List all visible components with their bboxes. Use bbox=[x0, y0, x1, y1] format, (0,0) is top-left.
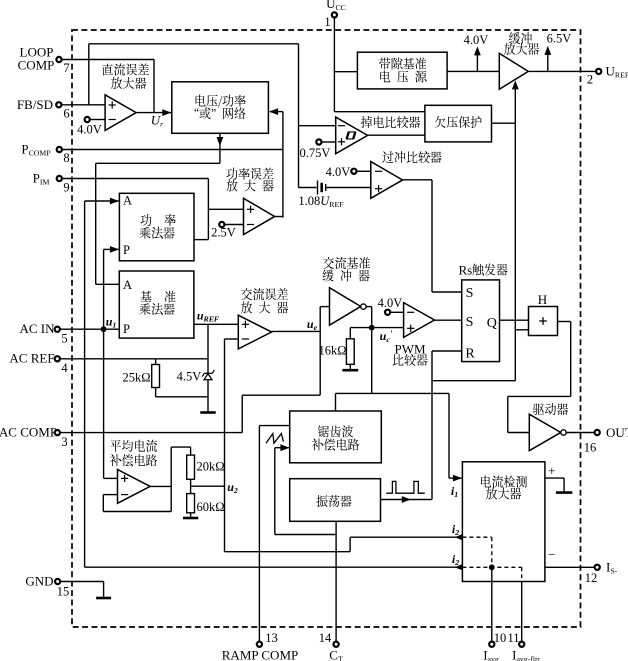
svg-text:12: 12 bbox=[585, 571, 598, 585]
wire uref to zener bbox=[207, 324, 209, 412]
wire u1 to P input of power multiplier bbox=[104, 246, 119, 478]
pin 3 AC COMP wire bbox=[60, 432, 242, 434]
svg-text:Iavg-fltr: Iavg-fltr bbox=[512, 648, 540, 661]
pin 7 terminal bbox=[56, 57, 61, 62]
wire to pin 11 bbox=[521, 582, 523, 642]
wire UVP output bbox=[492, 123, 516, 330]
undervoltage protection box 欠压保护 bbox=[425, 105, 492, 142]
minus terminal of current amp bbox=[548, 547, 555, 562]
svg-text:20kΩ: 20kΩ bbox=[196, 460, 224, 474]
pin number 2 bbox=[587, 73, 593, 87]
wire overshoot output to S input bbox=[403, 180, 462, 292]
wire RAMP COMP to sawtooth box bbox=[259, 426, 289, 645]
wire i2 to power multiplier (second) bbox=[85, 564, 463, 570]
pin 10 terminal bbox=[489, 642, 494, 647]
current detection amplifier box 电流检测放大器 bbox=[462, 462, 545, 582]
power-down comparator 掉电比较器 bbox=[336, 117, 368, 154]
oscillator pulse symbol bbox=[386, 481, 425, 493]
buffer amplifier 缓冲放大器 bbox=[499, 32, 539, 89]
pin 6 terminal bbox=[56, 102, 61, 107]
16k resistor bbox=[346, 328, 371, 370]
svg-text:15: 15 bbox=[57, 585, 70, 599]
svg-text:S: S bbox=[466, 315, 474, 330]
ground (zener) bbox=[200, 411, 215, 414]
label 直流误差放大器 bbox=[102, 63, 149, 89]
wire UVP to buffer bottom (arrow up) bbox=[512, 80, 519, 123]
pin number 14 bbox=[319, 631, 332, 645]
60k resistor bbox=[187, 494, 195, 518]
label AC COMP bbox=[0, 425, 57, 440]
pin number 13 bbox=[265, 631, 278, 645]
svg-text:60kΩ: 60kΩ bbox=[196, 500, 224, 514]
overshoot comparator 过冲比较器 bbox=[371, 162, 403, 199]
svg-text:P: P bbox=[123, 322, 130, 336]
pin 9 Pim wire bbox=[62, 179, 208, 240]
svg-text:6.5V: 6.5V bbox=[547, 32, 572, 46]
svg-text:16: 16 bbox=[584, 441, 597, 455]
label 掉电比较器 bbox=[361, 116, 420, 128]
svg-text:4.0V: 4.0V bbox=[378, 296, 403, 310]
svg-text:AC REF: AC REF bbox=[9, 351, 54, 366]
svg-text:10: 10 bbox=[494, 631, 507, 645]
pin number 5 bbox=[61, 332, 67, 346]
pin 14 terminal bbox=[334, 642, 339, 647]
ground (60k) bbox=[183, 517, 198, 520]
label i1 bbox=[451, 484, 458, 499]
pin 1 Ucc terminal bbox=[332, 12, 337, 17]
label 25k bbox=[122, 371, 150, 385]
label i2 (first) bbox=[452, 522, 459, 537]
DC error amplifier 直流误差放大器 bbox=[105, 95, 136, 131]
label Pcomp bbox=[21, 142, 51, 158]
label uc' bbox=[380, 329, 393, 344]
svg-text:4.0V: 4.0V bbox=[326, 165, 351, 179]
svg-text:16kΩ: 16kΩ bbox=[318, 344, 346, 358]
svg-text:u1: u1 bbox=[106, 315, 117, 330]
svg-text:uREF: uREF bbox=[197, 309, 220, 324]
pin 11 terminal bbox=[519, 642, 524, 647]
wire amp output bbox=[150, 485, 171, 487]
svg-text:S: S bbox=[466, 286, 474, 301]
label FB/SD bbox=[17, 97, 53, 112]
wire uc to PWM plus bbox=[372, 327, 404, 329]
svg-text:2.5V: 2.5V bbox=[211, 226, 236, 240]
pin number 3 bbox=[61, 435, 67, 449]
wire feedback minus loop bbox=[103, 447, 171, 511]
label 4.0V (top) bbox=[464, 33, 489, 47]
svg-text:11: 11 bbox=[507, 631, 519, 645]
svg-text:1.08UREF: 1.08UREF bbox=[298, 194, 344, 209]
reference multiplier box 基准乘法器 bbox=[119, 271, 194, 338]
pin 2 Uref terminal bbox=[596, 69, 601, 74]
svg-text:4.0V: 4.0V bbox=[464, 33, 489, 47]
ground (16k) bbox=[342, 369, 358, 372]
svg-text:GND: GND bbox=[25, 574, 53, 589]
wire bandgap to buffer bbox=[447, 70, 499, 72]
label PWM比较器 bbox=[393, 342, 428, 366]
label 20k bbox=[196, 460, 224, 474]
pin 9 terminal bbox=[57, 176, 62, 181]
AC reference buffer 交流基准缓冲器 bbox=[330, 288, 367, 326]
H summing box bbox=[529, 307, 558, 336]
pin 1 Ucc wire bbox=[334, 18, 425, 112]
svg-text:R: R bbox=[465, 347, 475, 362]
label 过冲比较器 bbox=[382, 151, 441, 163]
wire 0.75V to plus input bbox=[322, 141, 336, 143]
pin 4 AC REF wire bbox=[60, 358, 208, 360]
label RAMP COMP bbox=[222, 648, 298, 661]
4.0V terminal (overshoot) bbox=[351, 169, 356, 174]
svg-text:9: 9 bbox=[63, 181, 69, 195]
label Pim bbox=[33, 171, 50, 187]
label 4.5V bbox=[177, 370, 202, 384]
oscillator box 振荡器 bbox=[290, 479, 381, 522]
pin 4 terminal bbox=[55, 356, 60, 361]
wire to pin 10 bbox=[491, 567, 493, 641]
label 交流误差放大器 bbox=[241, 288, 288, 313]
label 60k bbox=[196, 500, 224, 514]
wire H output to driver bbox=[508, 322, 571, 433]
label 平均电流补偿电路 bbox=[110, 440, 157, 467]
label LOOP COMP bbox=[18, 45, 55, 73]
svg-text:UREF: UREF bbox=[606, 64, 628, 80]
pin number 15 bbox=[57, 585, 70, 599]
pin 7 LOOP COMP wire bbox=[62, 60, 154, 113]
svg-text:14: 14 bbox=[319, 631, 332, 645]
4.0V terminal (PWM) bbox=[385, 310, 390, 315]
20k resistor bbox=[171, 447, 194, 494]
AC error amplifier 交流误差放大器 bbox=[238, 315, 271, 349]
bandgap reference box 带隙基准电压源 bbox=[357, 52, 447, 89]
svg-text:4: 4 bbox=[61, 361, 68, 375]
svg-text:PIM: PIM bbox=[33, 171, 50, 187]
svg-text:IS-: IS- bbox=[606, 560, 618, 576]
wire power-amp feedback to OR network bbox=[269, 108, 283, 217]
label AC IN bbox=[19, 321, 55, 336]
svg-text:A: A bbox=[123, 278, 132, 292]
wire uc'/i1 run bbox=[336, 393, 462, 481]
svg-text:FB/SD: FB/SD bbox=[17, 97, 53, 112]
PWM comparator PWM比较器 bbox=[404, 303, 435, 338]
pin 8 Pcomp wire bbox=[62, 149, 283, 151]
pin number 12 bbox=[585, 571, 598, 585]
svg-text:UCC: UCC bbox=[326, 0, 346, 12]
battery 1.08Uref bbox=[299, 181, 371, 195]
svg-text:AC IN: AC IN bbox=[19, 321, 55, 336]
svg-text:−: − bbox=[548, 547, 555, 562]
pin number 7 bbox=[63, 61, 69, 75]
IC package boundary (dashed) bbox=[72, 30, 581, 627]
label 4.0V (PWM) bbox=[378, 296, 403, 310]
pin 13 terminal bbox=[257, 642, 262, 647]
label Iavg bbox=[483, 648, 499, 661]
svg-text:Rs: Rs bbox=[459, 263, 473, 278]
wire Ct to pin 14 bbox=[335, 521, 337, 644]
wire PWM output to S bbox=[435, 319, 462, 321]
svg-text:i2: i2 bbox=[452, 552, 459, 567]
wire DC amp output to OR network bbox=[136, 109, 171, 116]
sawtooth compensation box 锯齿波补偿电路 bbox=[290, 393, 382, 462]
4.0V terminal (DC error amp) bbox=[85, 117, 90, 122]
wire multiplier output to plus input bbox=[194, 209, 244, 239]
label i2 (second) bbox=[452, 552, 459, 567]
wire Ucc to bandgap bbox=[334, 71, 357, 73]
pin 5 terminal bbox=[55, 327, 60, 332]
2.5V terminal bbox=[219, 222, 224, 227]
svg-text:4.5V: 4.5V bbox=[177, 370, 202, 384]
power multiplier box 功率乘法器 bbox=[119, 193, 194, 260]
svg-text:RAMP COMP: RAMP COMP bbox=[222, 648, 298, 661]
label Ur bbox=[151, 113, 164, 129]
svg-text:PCOMP: PCOMP bbox=[21, 142, 51, 158]
wire buffer output to uc node bbox=[366, 307, 372, 394]
svg-text:25kΩ: 25kΩ bbox=[122, 371, 150, 385]
label Ucc bbox=[326, 0, 346, 12]
wire 4.0V to PWM minus bbox=[391, 311, 404, 313]
label Is- bbox=[606, 560, 618, 576]
label Uref bbox=[606, 64, 628, 80]
svg-text:AC COMP: AC COMP bbox=[0, 425, 57, 440]
25k resistor bbox=[152, 359, 208, 397]
wire ue output bbox=[272, 330, 321, 332]
node uc' bbox=[369, 325, 375, 331]
wire oscillator output bbox=[381, 496, 433, 503]
pin 6 FB/SD wire bbox=[62, 104, 105, 106]
pin 16 terminal bbox=[595, 430, 600, 435]
wire FB/SD to comparators (top run) bbox=[89, 44, 299, 188]
svg-text:A: A bbox=[123, 194, 132, 208]
power error amplifier 功率误差放大器 bbox=[244, 198, 275, 234]
pin numbers 10 11 bbox=[494, 631, 520, 645]
wire Q output to H bbox=[500, 319, 529, 321]
label GND bbox=[25, 574, 53, 589]
node i2 junction bbox=[489, 564, 495, 570]
voltage/power OR network box 电压/功率或网络 bbox=[172, 82, 269, 134]
wire Ct ramp to sawtooth box (arrow) bbox=[275, 444, 336, 534]
label u1 bbox=[106, 315, 117, 330]
label 1.08Uref bbox=[298, 194, 344, 209]
svg-text:PWM: PWM bbox=[394, 342, 426, 357]
label 16k bbox=[318, 344, 346, 358]
zener diode 4.5V bbox=[202, 370, 214, 380]
pin 5 AC IN wire bbox=[60, 328, 119, 330]
wire OR output to A input of reference multiplier bbox=[96, 283, 120, 285]
label Iavg-fltr bbox=[512, 648, 540, 661]
wire to minus of power-down comparator bbox=[299, 125, 336, 127]
svg-text:4.0V: 4.0V bbox=[77, 123, 102, 137]
wire buffer to Uref pin bbox=[528, 70, 595, 72]
wire u2 to minus input bbox=[225, 339, 239, 552]
svg-text:uc': uc' bbox=[380, 329, 393, 344]
wire buffer input bbox=[320, 306, 329, 308]
svg-text:COMP: COMP bbox=[18, 58, 55, 73]
svg-text:7: 7 bbox=[63, 61, 69, 75]
pin 15 terminal bbox=[55, 579, 60, 584]
svg-text:2: 2 bbox=[587, 73, 593, 87]
svg-text:5: 5 bbox=[61, 332, 67, 346]
svg-text:8: 8 bbox=[63, 151, 69, 165]
wire driver to OUT bbox=[566, 432, 594, 434]
svg-text:1: 1 bbox=[324, 15, 330, 29]
pin number 6 bbox=[63, 107, 69, 121]
ground (GND pin) bbox=[96, 582, 111, 599]
svg-text:3: 3 bbox=[61, 435, 67, 449]
pin number 9 bbox=[63, 181, 69, 195]
label H bbox=[538, 292, 547, 307]
0.75V terminal bbox=[316, 139, 321, 144]
label Rs触发器 bbox=[459, 263, 508, 278]
OR network output down arrow bbox=[96, 133, 224, 284]
average current compensation 平均电流补偿电路 bbox=[118, 470, 151, 504]
label Ct bbox=[329, 648, 343, 661]
svg-text:Q: Q bbox=[487, 316, 497, 331]
driver 驱动器 bbox=[529, 414, 566, 451]
dashed i2 to pins bbox=[462, 567, 521, 581]
label 交流基准缓冲器 bbox=[322, 257, 370, 282]
wire u2 to i2 (first) bbox=[225, 534, 463, 552]
label ue bbox=[307, 317, 318, 332]
wire i2 to A input of power multiplier bbox=[85, 198, 119, 568]
wire u1 to plus input bbox=[104, 477, 118, 479]
dashed i2 path inside box bbox=[462, 537, 491, 567]
ground (current amp plus) bbox=[556, 491, 572, 494]
plus terminal of current amp bbox=[545, 463, 564, 492]
svg-text:u2: u2 bbox=[227, 480, 238, 495]
svg-text:0.75V: 0.75V bbox=[300, 146, 331, 160]
wire 4.0V to minus bbox=[357, 170, 371, 172]
wire power amp output bbox=[275, 217, 283, 218]
label 6.5V bbox=[547, 32, 572, 46]
label 4.0V (overshoot) bbox=[326, 165, 351, 179]
label 4.0V (DC amp) bbox=[77, 123, 102, 137]
label 2.5V bbox=[211, 226, 236, 240]
node u2 wire bbox=[191, 485, 225, 487]
pin number 8 bbox=[63, 151, 69, 165]
svg-text:+: + bbox=[548, 463, 555, 478]
label 功率误差放大器 bbox=[226, 168, 273, 192]
svg-text:Ur: Ur bbox=[151, 113, 164, 129]
wire 2.5V to minus input bbox=[225, 224, 244, 226]
pin 3 terminal bbox=[55, 430, 60, 435]
svg-text:Iavg: Iavg bbox=[483, 648, 499, 661]
svg-text:CT: CT bbox=[329, 648, 343, 661]
pin 8 terminal bbox=[57, 147, 62, 152]
wire R path to oscillator and H bbox=[432, 330, 529, 500]
sawtooth waveform symbol bbox=[266, 434, 283, 444]
svg-text:6: 6 bbox=[63, 107, 69, 121]
label OUT bbox=[606, 425, 628, 440]
wire comparator to UVP box bbox=[368, 134, 425, 136]
svg-text:i1: i1 bbox=[451, 484, 458, 499]
node u1 bbox=[101, 326, 107, 332]
6.5V arrow on Uref line bbox=[544, 46, 551, 72]
svg-text:i2: i2 bbox=[452, 522, 459, 537]
label 驱动器 bbox=[533, 403, 568, 415]
pin 12 terminal bbox=[595, 565, 600, 570]
pin number 4 bbox=[61, 361, 68, 375]
wire Is- output bbox=[545, 566, 594, 568]
svg-text:H: H bbox=[538, 292, 547, 307]
wire 4.0V to minus (DC amp) bbox=[90, 119, 105, 121]
RS flip-flop box Rs触发器 bbox=[462, 280, 500, 362]
wire ue to AC COMP bbox=[242, 307, 320, 433]
pin number 16 bbox=[584, 441, 597, 455]
svg-text:P: P bbox=[123, 243, 130, 257]
pin 15 GND wire bbox=[61, 581, 104, 583]
label AC REF bbox=[9, 351, 54, 366]
svg-text:13: 13 bbox=[265, 631, 278, 645]
label uref bbox=[197, 309, 220, 324]
4.0V arrow on reference line bbox=[474, 46, 481, 71]
pin number 1 bbox=[324, 15, 330, 29]
label u2 bbox=[227, 480, 238, 495]
svg-text:OUT: OUT bbox=[606, 425, 628, 440]
svg-text:ue: ue bbox=[307, 317, 318, 332]
wire uref output bbox=[194, 323, 238, 325]
label 0.75V bbox=[300, 146, 331, 160]
